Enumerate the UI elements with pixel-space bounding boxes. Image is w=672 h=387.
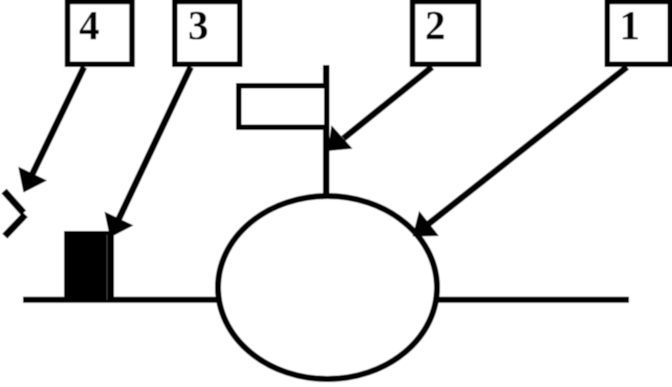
- svg-text:2: 2: [425, 2, 446, 48]
- wire: callout arrow 4: [18, 67, 84, 193]
- wire: callout arrow 1: [413, 67, 627, 237]
- wire: right horizontal line: [438, 297, 629, 303]
- node: label box 3: [175, 2, 240, 65]
- node: chevron mark: [4, 191, 24, 213]
- wire: callout arrow 3: [105, 67, 191, 238]
- wire: faint seam in filled rectangle: [106, 235, 108, 300]
- wire: callout arrow 2: [328, 67, 432, 151]
- node: large circle: [218, 196, 437, 379]
- node: label box 4: [68, 2, 133, 65]
- node: label box 2: [413, 2, 479, 65]
- wire: left horizontal line: [23, 297, 217, 303]
- node: filled black rectangle on line: [64, 231, 114, 303]
- svg-text:1: 1: [620, 2, 641, 48]
- svg-text:3: 3: [188, 2, 209, 48]
- node: flag rectangle: [239, 86, 327, 128]
- wire: vertical pole on circle top: [323, 65, 330, 197]
- node: label box 1: [607, 2, 670, 65]
- svg-text:4: 4: [79, 2, 100, 48]
